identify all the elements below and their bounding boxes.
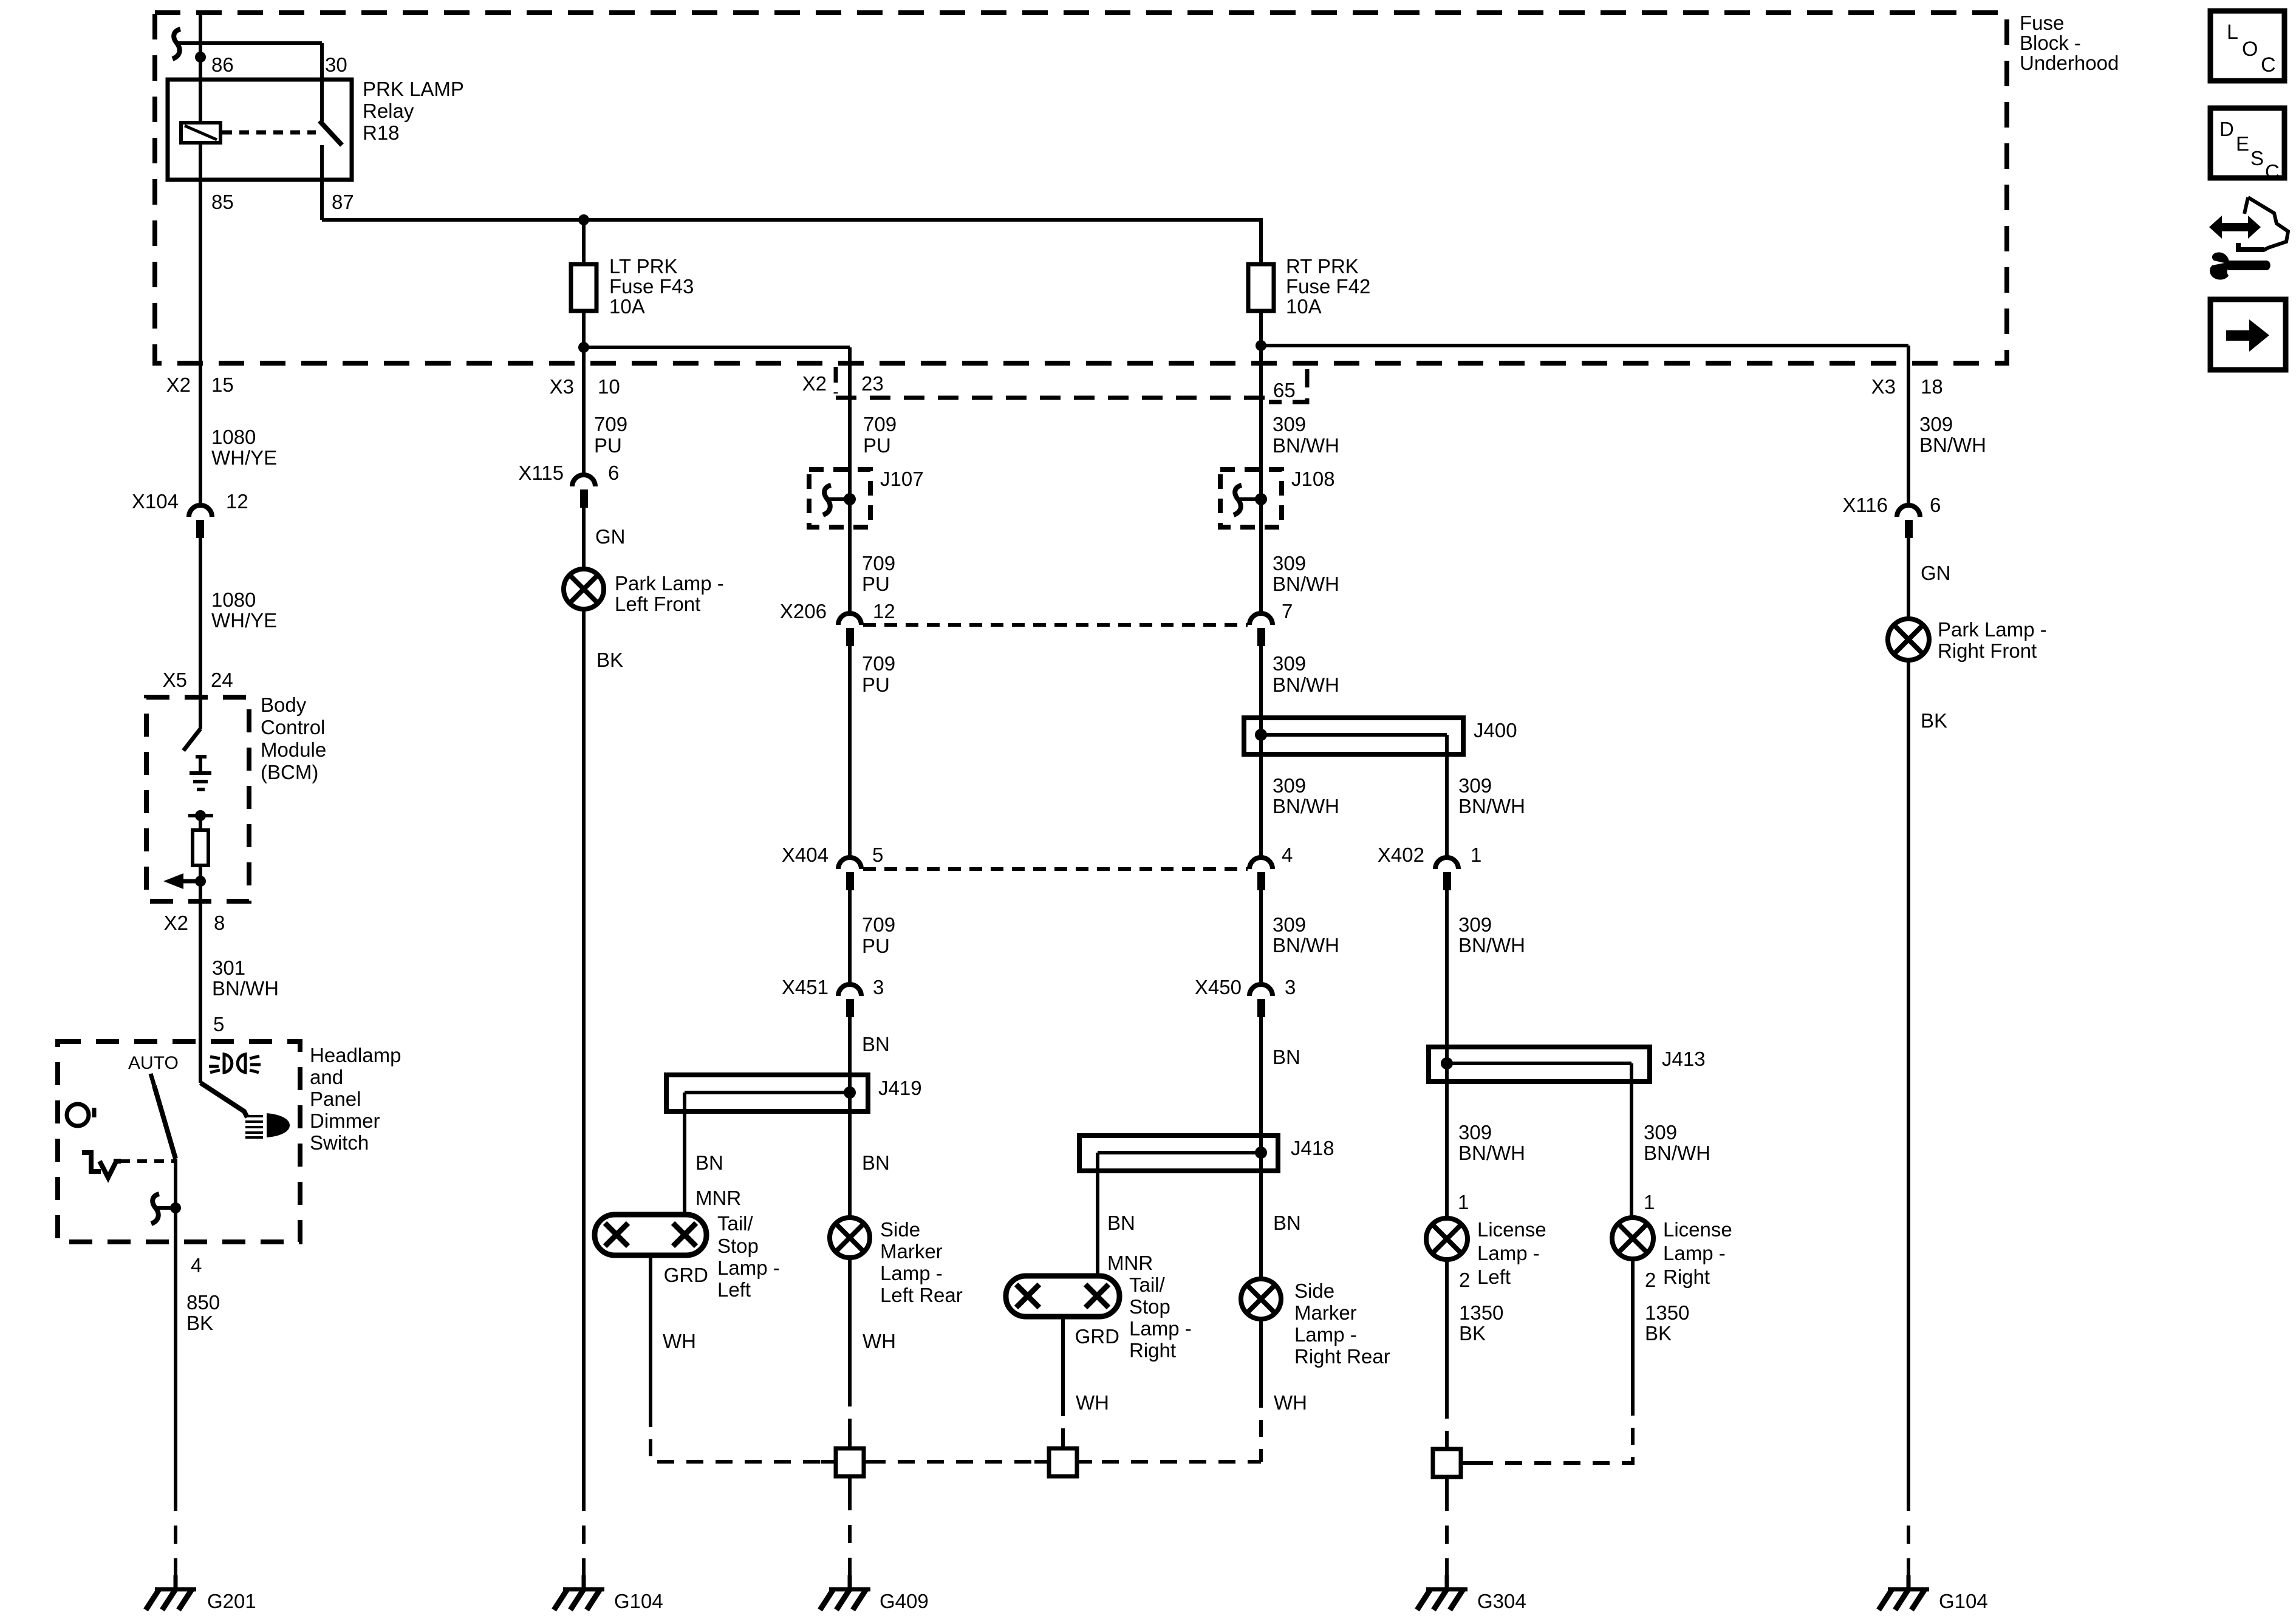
wire right park circuit down from RT fuse (1259, 346, 1263, 613)
wire pin 30 down into relay (320, 43, 324, 121)
svg-text:2: 2 (1645, 1269, 1656, 1291)
connector label X3 18 (1871, 375, 1943, 398)
label Body Control Module (BCM) (261, 694, 326, 783)
svg-text:LT PRK: LT PRK (609, 255, 678, 278)
svg-text:Side: Side (880, 1218, 920, 1241)
node junction above LT fuse (578, 214, 589, 225)
svg-text:Lamp -: Lamp - (1477, 1242, 1540, 1264)
fuse F42 RT PRK (1248, 264, 1274, 311)
wire X206-12 to X404-5 (848, 646, 852, 857)
wire label 309 BN/WH left (1458, 1121, 1525, 1164)
wire park lamp right front to ground (1907, 660, 1910, 1493)
svg-text:Module: Module (261, 738, 326, 761)
wire relay pin 86 feed from fuse block top (199, 13, 202, 123)
connector label X450 3 (1195, 976, 1296, 998)
label Side Marker Lamp - Left Rear (880, 1218, 963, 1306)
svg-text:BN/WH: BN/WH (212, 977, 279, 1000)
wire label 301 BN/WH (212, 956, 279, 1000)
svg-text:Side: Side (1294, 1280, 1334, 1302)
svg-text:Underhood: Underhood (2020, 52, 2119, 74)
svg-text:PRK LAMP: PRK LAMP (363, 78, 464, 100)
svg-text:709: 709 (863, 413, 897, 435)
svg-text:X450: X450 (1195, 976, 1242, 998)
label LT PRK Fuse F43 10A (609, 255, 694, 318)
svg-text:6: 6 (608, 462, 619, 484)
label PRK LAMP Relay R18 (363, 78, 464, 144)
lamp Tail/Stop Lamp - Right dual filament (1006, 1276, 1119, 1317)
wire dashed splice square to G304 (1445, 1493, 1449, 1577)
wire BCM to headlamp switch (199, 901, 202, 1083)
svg-text:C: C (2261, 53, 2276, 77)
switch input blade toward headlamp position (200, 1083, 247, 1117)
svg-text:Left Rear: Left Rear (880, 1284, 963, 1306)
svg-text:30: 30 (325, 53, 347, 76)
wire label 1350 BK right (1645, 1301, 1689, 1345)
wire J413 left leg to license lamp left (1445, 1047, 1449, 1218)
ground G104 right (1879, 1575, 1929, 1610)
relay coil (181, 123, 220, 143)
svg-text:G201: G201 (207, 1590, 256, 1612)
wire tail stop right ground (1061, 1317, 1065, 1399)
connector X404 dashed link line (863, 867, 1248, 871)
svg-text:L: L (2227, 21, 2238, 44)
hook clip in J107 (823, 485, 831, 515)
wire label 850 BK (186, 1291, 220, 1334)
svg-text:309: 309 (1273, 774, 1306, 797)
OFF contact tick (92, 1108, 97, 1117)
connector X2 pins 23-65 dashed link (836, 367, 1307, 402)
wire J419 left branch to tail stop lamp left (683, 1093, 686, 1217)
svg-text:10A: 10A (1286, 295, 1322, 318)
wire hook to output node (157, 1206, 176, 1210)
wire hook to J107 node (829, 497, 850, 501)
BCM internal node with tick (188, 810, 213, 830)
svg-text:BN/WH: BN/WH (1273, 434, 1339, 457)
svg-text:309: 309 (1273, 552, 1306, 574)
svg-text:3: 3 (1285, 976, 1296, 998)
wire down to RT fuse (1259, 220, 1263, 264)
wire from pin 87 horizontal feed to fuses (322, 218, 1263, 222)
wire horizontal LT fuse output to X2-23 (584, 346, 850, 349)
connector X115 pin 6 (572, 475, 595, 508)
splice pack J400 (1244, 718, 1463, 754)
svg-text:License: License (1663, 1218, 1732, 1241)
svg-text:3: 3 (873, 976, 884, 998)
wire side marker right ground (1259, 1319, 1263, 1391)
connector label X104 12 (132, 490, 248, 513)
wire X116 to park lamp right front (1907, 538, 1910, 619)
svg-text:86: 86 (211, 53, 234, 76)
svg-text:Body: Body (261, 694, 307, 716)
svg-text:PU: PU (863, 434, 891, 457)
wire label 309 BN/WH (1458, 913, 1525, 956)
svg-text:BK: BK (186, 1312, 213, 1334)
icon LOC box (2210, 11, 2284, 81)
node splice J107 (844, 493, 856, 505)
svg-text:BK: BK (596, 649, 623, 671)
wire X104 to BCM (199, 538, 202, 697)
label Side Marker Lamp - Right Rear (1294, 1280, 1390, 1368)
svg-text:BN: BN (1107, 1212, 1135, 1234)
wire dashed continuation to G201 (174, 1493, 177, 1577)
svg-text:BN/WH: BN/WH (1919, 434, 1986, 456)
BCM switch blade (183, 729, 200, 751)
svg-text:X5: X5 (163, 669, 187, 691)
relay R18 box (168, 80, 352, 180)
ground G409 (820, 1575, 870, 1610)
label Fuse Block - Underhood (2020, 12, 2119, 74)
svg-text:8: 8 (214, 912, 225, 934)
svg-text:1350: 1350 (1459, 1301, 1503, 1324)
svg-text:Park Lamp -: Park Lamp - (1938, 618, 2047, 641)
svg-text:BN: BN (1273, 1212, 1301, 1234)
svg-text:BN: BN (695, 1151, 723, 1174)
wire relay pin 87 inside box (320, 145, 324, 220)
svg-text:J400: J400 (1474, 719, 1517, 742)
svg-text:Right: Right (1663, 1266, 1710, 1288)
svg-text:BN/WH: BN/WH (1458, 1142, 1525, 1164)
BCM internal ground symbol (190, 755, 211, 789)
BCM signal arrow to left (163, 873, 206, 889)
svg-text:AUTO: AUTO (128, 1053, 179, 1073)
headlamp and panel dimmer switch dashed box (58, 1042, 300, 1242)
svg-text:Tail/: Tail/ (1129, 1273, 1166, 1296)
svg-text:BN/WH: BN/WH (1273, 934, 1339, 956)
wire label 309 BN/WH (1273, 552, 1339, 595)
svg-text:BN/WH: BN/WH (1273, 795, 1339, 817)
ground bus dashed line (869, 1460, 1261, 1464)
svg-text:D: D (2219, 118, 2234, 140)
svg-text:X451: X451 (782, 976, 829, 998)
node splice J108 (1255, 493, 1267, 505)
switch internal dashed line (120, 1159, 176, 1163)
svg-text:WH/YE: WH/YE (211, 609, 277, 632)
svg-text:709: 709 (862, 913, 895, 936)
svg-text:J419: J419 (878, 1077, 922, 1099)
svg-text:309: 309 (1273, 652, 1306, 675)
wire J418 through to side marker right (1259, 1136, 1263, 1279)
svg-text:WH/YE: WH/YE (211, 446, 277, 469)
svg-text:6: 6 (1930, 494, 1941, 516)
wire label 309 BN/WH (1273, 413, 1339, 457)
wire label 309 BN/WH (1273, 913, 1339, 956)
splice J108 dashed box (1220, 469, 1282, 527)
svg-text:Right Rear: Right Rear (1294, 1345, 1390, 1368)
svg-text:X115: X115 (518, 462, 564, 484)
relay switch blade (319, 121, 342, 145)
wire left park circuit down from fuse output (848, 347, 852, 613)
svg-text:BN: BN (862, 1151, 890, 1174)
svg-text:15: 15 (211, 373, 234, 396)
svg-text:X116: X116 (1842, 494, 1888, 516)
svg-text:24: 24 (211, 669, 233, 691)
svg-text:309: 309 (1458, 1121, 1492, 1144)
label License Lamp - Right (1663, 1218, 1732, 1288)
svg-text:2: 2 (1459, 1269, 1470, 1291)
svg-text:X3: X3 (1871, 375, 1896, 398)
icon wrench (2210, 253, 2270, 280)
svg-text:12: 12 (873, 600, 895, 622)
node junction at switch output (170, 1202, 181, 1213)
svg-text:309: 309 (1273, 413, 1306, 435)
svg-text:GN: GN (1921, 562, 1951, 584)
wire J413 right leg to license lamp right (1630, 1063, 1633, 1218)
svg-text:709: 709 (862, 552, 895, 574)
svg-text:1080: 1080 (211, 426, 256, 448)
svg-text:65: 65 (1273, 379, 1296, 401)
svg-text:Left: Left (717, 1278, 751, 1301)
splice pack J418 (1079, 1136, 1278, 1171)
svg-text:1: 1 (1471, 844, 1481, 866)
svg-text:10: 10 (598, 375, 620, 398)
icon vehicle double arrow (2209, 197, 2288, 250)
splice pack J413 (1429, 1047, 1650, 1082)
connector X116 pin 6 (1897, 505, 1920, 538)
wire hook to J108 node (1239, 497, 1261, 501)
lamp License Lamp - Left (1426, 1218, 1467, 1260)
wire X115 to park lamp left front (582, 508, 586, 569)
connector X402 pin 1 (1435, 857, 1458, 890)
svg-text:X104: X104 (132, 490, 179, 513)
svg-text:87: 87 (332, 191, 354, 213)
wire X404-5 to X451-3 (848, 890, 852, 984)
connector label X116 6 (1842, 494, 1941, 516)
svg-text:WH: WH (863, 1330, 896, 1352)
svg-text:5: 5 (872, 844, 883, 866)
wire label 709 PU (863, 413, 897, 457)
svg-text:Marker: Marker (880, 1240, 943, 1263)
svg-text:X2: X2 (164, 912, 188, 934)
wire X404-4 to X450-3 (1259, 890, 1263, 984)
svg-text:Control: Control (261, 716, 325, 738)
svg-text:X402: X402 (1378, 844, 1424, 866)
wire label 1080 WH/YE (211, 426, 277, 469)
label Park Lamp - Right Front (1938, 618, 2047, 662)
svg-text:GRD: GRD (664, 1264, 708, 1286)
wire side marker left ground (848, 1258, 852, 1389)
connector label X206 12 (780, 600, 895, 622)
connector label X2 8 (164, 912, 225, 934)
connector label X5 24 (163, 669, 233, 691)
svg-text:PU: PU (862, 673, 890, 696)
svg-text:J108: J108 (1291, 468, 1335, 490)
svg-text:Stop: Stop (717, 1235, 759, 1257)
wire dashed tail stop left ground to bus (651, 1410, 836, 1462)
wire label 1080 WH/YE (211, 588, 277, 632)
wire LT fuse output down to X115 (582, 347, 586, 476)
svg-text:Fuse F42: Fuse F42 (1286, 275, 1370, 298)
svg-text:MNR: MNR (695, 1187, 741, 1209)
connector X206 pin 12 (838, 613, 861, 646)
svg-text:1350: 1350 (1645, 1301, 1689, 1324)
svg-text:PU: PU (862, 573, 890, 595)
wire dashed tail stop right ground to splice square (1061, 1399, 1065, 1443)
wire label 309 BN/WH (1273, 774, 1339, 817)
wire license left ground (1445, 1260, 1449, 1402)
wire J418 left branch to tail stop lamp right (1096, 1153, 1099, 1278)
svg-text:18: 18 (1921, 375, 1943, 398)
wire X451-3 to splice J419 (848, 1017, 852, 1075)
svg-text:BN/WH: BN/WH (1273, 673, 1339, 696)
svg-text:7: 7 (1282, 600, 1293, 622)
wire J400 through left leg (1259, 718, 1263, 857)
svg-text:Lamp -: Lamp - (1129, 1317, 1192, 1340)
svg-text:Lamp -: Lamp - (1294, 1323, 1357, 1346)
connector X104 pin 12 (189, 505, 212, 538)
svg-text:WH: WH (1076, 1391, 1109, 1414)
AUTO contact wire (151, 1074, 154, 1086)
wire relay pin 85 down to BCM (199, 143, 202, 505)
svg-text:Left Front: Left Front (615, 593, 700, 615)
wire J400 right leg down (1445, 735, 1449, 857)
svg-text:WH: WH (663, 1330, 696, 1352)
wire below LT fuse (582, 311, 586, 347)
svg-text:85: 85 (211, 191, 234, 213)
body control module dashed box (146, 697, 249, 901)
svg-text:RT PRK: RT PRK (1286, 255, 1359, 278)
AUTO wiper blade (154, 1086, 176, 1159)
svg-text:BK: BK (1459, 1322, 1486, 1345)
svg-text:BN: BN (862, 1033, 890, 1055)
ground bus dashed license lamps (1476, 1402, 1633, 1463)
lamp Side Marker Lamp - Right Rear (1241, 1279, 1281, 1319)
ground G201 (146, 1575, 196, 1610)
svg-text:1080: 1080 (211, 588, 256, 611)
svg-text:J413: J413 (1662, 1048, 1706, 1070)
connector X450 pin 3 (1249, 984, 1273, 1017)
svg-text:4: 4 (1282, 844, 1293, 866)
svg-text:BK: BK (1921, 709, 1947, 732)
connector label X2 23 (802, 372, 884, 395)
svg-text:Switch: Switch (310, 1131, 369, 1154)
icon next-page arrow box (2210, 299, 2286, 370)
wire label 309 BN/WH (1273, 652, 1339, 696)
svg-text:X404: X404 (782, 844, 829, 866)
svg-text:G104: G104 (1939, 1590, 1988, 1612)
svg-text:S: S (2250, 147, 2264, 169)
connector X404 pin 4 (1249, 857, 1273, 890)
svg-text:301: 301 (212, 956, 245, 979)
wire down to LT fuse (582, 220, 586, 264)
svg-text:Headlamp: Headlamp (310, 1044, 401, 1066)
lamp License Lamp - Right (1612, 1218, 1653, 1259)
node junction below RT fuse (1256, 340, 1266, 351)
splice square license ground (1433, 1433, 1476, 1493)
connector label X402 1 (1378, 844, 1481, 866)
connector X451 pin 3 (838, 984, 861, 1017)
svg-text:(BCM): (BCM) (261, 761, 318, 783)
wire label 709 PU (862, 652, 895, 696)
splice pack J419 (666, 1075, 868, 1111)
svg-text:X3: X3 (550, 375, 574, 398)
ground G104 left (554, 1575, 604, 1610)
svg-text:Dimmer: Dimmer (310, 1110, 380, 1132)
svg-text:G409: G409 (880, 1590, 929, 1612)
wire tail stop left ground (649, 1255, 652, 1410)
svg-text:C: C (2265, 160, 2280, 183)
svg-text:X206: X206 (780, 600, 827, 622)
svg-text:G304: G304 (1477, 1590, 1526, 1612)
svg-text:Marker: Marker (1294, 1301, 1357, 1324)
svg-text:Lamp -: Lamp - (1663, 1242, 1726, 1264)
svg-text:PU: PU (862, 935, 890, 957)
svg-text:Block -: Block - (2020, 32, 2081, 54)
node junction at pin 86 wire (195, 52, 206, 63)
splice J107 dashed box (809, 469, 870, 527)
ground G304 (1417, 1575, 1467, 1610)
park position icon (82, 1153, 121, 1178)
switch output wire (174, 1159, 177, 1493)
svg-text:R18: R18 (363, 121, 400, 144)
park lamp position icon (209, 1054, 261, 1072)
svg-text:G104: G104 (614, 1590, 663, 1612)
svg-text:X2: X2 (166, 373, 191, 396)
svg-text:and: and (310, 1066, 343, 1088)
splice square on ground bus left (821, 1432, 879, 1492)
wire X206-7 to J400 (1259, 646, 1263, 718)
svg-text:23: 23 (861, 372, 884, 395)
splice square on ground bus right (1034, 1432, 1092, 1476)
svg-text:MNR: MNR (1107, 1252, 1153, 1274)
lamp Park Lamp - Right Front (1888, 619, 1929, 660)
svg-text:License: License (1477, 1218, 1546, 1241)
svg-text:12: 12 (226, 490, 248, 513)
BCM resistor output wire (199, 865, 202, 901)
wire license right ground (1631, 1259, 1635, 1402)
wire below RT fuse (1259, 311, 1263, 346)
svg-text:309: 309 (1458, 774, 1492, 797)
wire horizontal RT fuse output to X3-18 (1261, 344, 1908, 347)
svg-text:Tail/: Tail/ (717, 1212, 754, 1235)
wire label 709 PU (594, 413, 627, 457)
svg-text:309: 309 (1644, 1121, 1677, 1144)
svg-text:BN/WH: BN/WH (1273, 573, 1339, 595)
headlamp position icon (245, 1113, 290, 1137)
wire park lamp left front to ground (582, 609, 586, 1493)
icon DESC box (2210, 108, 2284, 183)
label RT PRK Fuse F42 10A (1286, 255, 1370, 318)
svg-text:Right Front: Right Front (1938, 639, 2037, 662)
svg-text:Lamp -: Lamp - (880, 1262, 943, 1284)
BCM switch wire (199, 697, 202, 729)
wire dashed license left to splice square (1445, 1402, 1449, 1444)
svg-text:850: 850 (186, 1291, 220, 1314)
svg-text:BN/WH: BN/WH (1458, 795, 1525, 817)
connector label X115 6 (518, 462, 619, 484)
label License Lamp - Left (1477, 1218, 1546, 1288)
wire right front park down from RT output (1907, 346, 1910, 505)
connector label X404 5 (782, 844, 883, 866)
svg-text:Left: Left (1477, 1266, 1511, 1288)
svg-text:BN: BN (1273, 1046, 1300, 1068)
wire label 1350 BK left (1459, 1301, 1503, 1345)
wire J419 through to side marker (848, 1075, 852, 1218)
connector label X3 10 (550, 375, 620, 398)
svg-text:309: 309 (1458, 913, 1492, 936)
wire X450-3 to splice J418 (1259, 1017, 1263, 1136)
svg-text:BN/WH: BN/WH (1458, 934, 1525, 956)
svg-text:709: 709 (594, 413, 627, 435)
svg-text:PU: PU (594, 434, 622, 457)
wire dashed side marker right down to ground bus corner (1259, 1391, 1263, 1462)
svg-text:Right: Right (1129, 1339, 1176, 1362)
relay actuation dashed link (222, 131, 316, 135)
wire label 309 BN/WH (1919, 413, 1986, 456)
lamp Side Marker Lamp - Left Rear (830, 1218, 870, 1258)
wire dashed side marker left to splice square (848, 1389, 852, 1443)
svg-text:309: 309 (1919, 413, 1953, 435)
svg-text:1: 1 (1644, 1191, 1655, 1213)
